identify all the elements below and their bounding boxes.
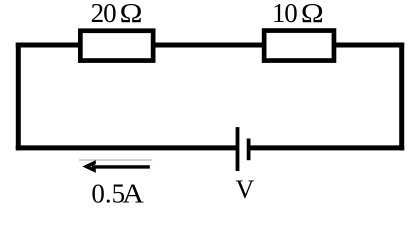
wire: bottom-left segment — [16, 145, 238, 150]
battery V: long plate (positive) — [236, 127, 240, 171]
wire: bottom-right segment — [249, 145, 405, 150]
current arrow pointing left — [82, 160, 149, 173]
svg-text:0.5: 0.5 — [91, 179, 125, 209]
wire: right side — [399, 43, 404, 151]
wire: top-right segment — [334, 43, 404, 48]
battery V: short plate (negative) — [247, 139, 251, 161]
label: 20Ω value of R1 — [91, 0, 143, 28]
svg-text:10: 10 — [272, 0, 297, 28]
svg-text:V: V — [236, 175, 255, 204]
annotation rule above current arrow — [79, 159, 153, 161]
svg-text:Ω: Ω — [120, 0, 143, 28]
resistor R1 (20 ohm) body — [80, 31, 153, 61]
label: 10Ω value of R2 — [272, 0, 324, 28]
svg-text:20: 20 — [91, 0, 117, 28]
wire: top-middle segment between R1 and R2 — [153, 43, 264, 48]
wire: left side — [16, 43, 21, 151]
wire: top-left segment — [16, 43, 80, 48]
svg-text:Ω: Ω — [301, 0, 324, 28]
resistor R2 (10 ohm) body — [264, 31, 334, 61]
svg-text:A: A — [122, 180, 144, 209]
